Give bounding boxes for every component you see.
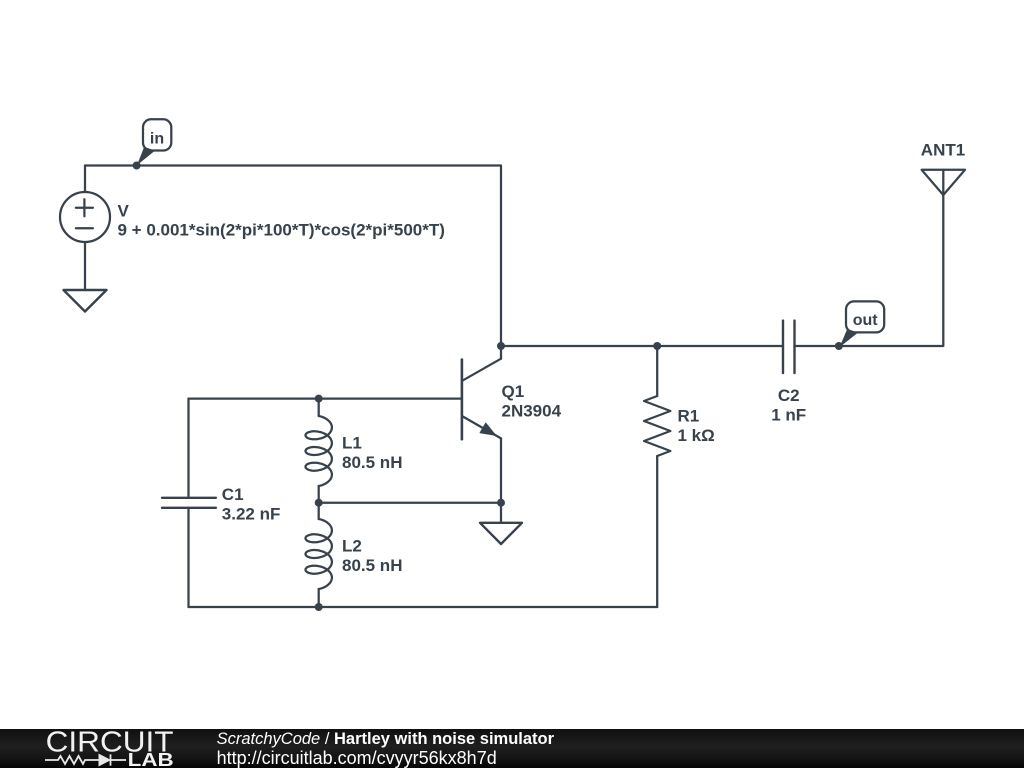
ground below V: [64, 290, 107, 312]
wire bottom rail: [189, 606, 658, 608]
svg-text:out: out: [853, 312, 879, 329]
node dot R1 top: [653, 342, 661, 350]
svg-text:C2: C2: [778, 386, 800, 405]
capacitor C2: [783, 321, 795, 374]
svg-text:ScratchyCode / Hartley with no: ScratchyCode / Hartley with noise simula…: [217, 730, 555, 748]
transistor Q1: [462, 359, 501, 440]
wire top from V to collector corner: [85, 166, 501, 359]
svg-text:http://circuitlab.com/cvyyr56k: http://circuitlab.com/cvyyr56kx8h7d: [217, 748, 497, 768]
node dot in: [133, 162, 141, 170]
wire emitter rail: [319, 502, 501, 504]
antenna ANT1: [922, 170, 965, 195]
footer bar: [0, 729, 1024, 768]
inductor L1: [306, 399, 332, 503]
wire V bottom stem: [84, 242, 86, 290]
svg-text:R1: R1: [678, 407, 700, 426]
voltage source V: [60, 192, 110, 242]
wire C1 upper branch: [187, 399, 189, 498]
svg-text:in: in: [150, 130, 164, 147]
node dot collector: [497, 342, 505, 350]
svg-text:C1: C1: [222, 485, 244, 504]
svg-text:9 + 0.001*sin(2*pi*100*T)*cos(: 9 + 0.001*sin(2*pi*100*T)*cos(2*pi*500*T…: [118, 221, 445, 240]
wire emitter ground stem: [500, 503, 502, 523]
flag in pointer: [137, 147, 155, 166]
svg-text:1 kΩ: 1 kΩ: [678, 426, 715, 445]
svg-text:V: V: [118, 202, 130, 221]
node dot L1 top: [315, 395, 323, 403]
capacitor C1: [162, 498, 216, 508]
flag out pointer: [840, 329, 859, 347]
node dot emitter: [497, 499, 505, 507]
svg-text:1 nF: 1 nF: [771, 406, 806, 425]
wire C2 to antenna corner: [795, 170, 944, 346]
svg-text:3.22 nF: 3.22 nF: [222, 505, 281, 524]
svg-text:LAB: LAB: [128, 750, 174, 768]
svg-text:80.5 nH: 80.5 nH: [342, 453, 402, 472]
flag out box: [846, 301, 884, 332]
flag in box: [143, 119, 171, 150]
ground below emitter: [480, 523, 522, 544]
inductor L2: [306, 503, 332, 607]
node dot bottom rail: [315, 603, 323, 611]
wire emitter lead: [500, 438, 502, 502]
svg-text:Q1: Q1: [502, 382, 525, 401]
wire V top stem: [84, 166, 86, 193]
resistor R1: [644, 346, 670, 607]
node dot L1-L2 junction: [315, 499, 323, 507]
svg-text:ANT1: ANT1: [921, 140, 965, 159]
wire base from C1 corner to Q1 base: [189, 397, 462, 399]
svg-text:80.5 nH: 80.5 nH: [342, 556, 402, 575]
wire collector rail to C2: [501, 345, 783, 347]
svg-text:L1: L1: [342, 434, 362, 453]
wire C1 lower branch: [187, 508, 189, 607]
svg-text:2N3904: 2N3904: [502, 401, 562, 420]
node dot out: [835, 342, 843, 350]
footer logo resistor-diode glyph: [45, 754, 126, 765]
svg-text:L2: L2: [342, 537, 362, 556]
